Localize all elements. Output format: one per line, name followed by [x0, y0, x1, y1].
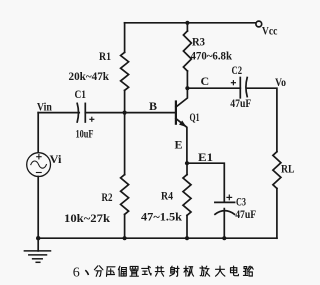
glyph ji — [184, 266, 194, 276]
svg-text:E: E — [175, 138, 183, 152]
svg-text:R3: R3 — [192, 35, 205, 49]
svg-text:10k~27k: 10k~27k — [64, 213, 111, 225]
svg-text:RL: RL — [281, 162, 295, 176]
svg-text:470~6.8k: 470~6.8k — [191, 51, 233, 63]
node C3 bottom junction — [222, 236, 226, 240]
wire Vi branch lower — [37, 177, 39, 239]
wire Vin stub — [38, 112, 79, 114]
resistor R2 — [124, 113, 126, 175]
svg-text:B: B — [149, 99, 157, 113]
node E1 junction — [185, 161, 189, 165]
resistor RL — [273, 152, 281, 189]
svg-text:R2: R2 — [102, 190, 113, 204]
wire C1 to base — [85, 112, 175, 114]
wire E1 to C3 — [187, 163, 224, 202]
wire top rail — [125, 22, 256, 24]
glyph da — [216, 266, 225, 276]
svg-text:47~1.5k: 47~1.5k — [141, 212, 183, 224]
resistor R4 — [186, 163, 188, 174]
capacitor C3 — [215, 201, 235, 203]
glyph dian — [231, 266, 239, 276]
svg-text:Q1: Q1 — [190, 110, 200, 124]
transistor Q1 — [175, 102, 177, 124]
glyph ya — [107, 267, 116, 277]
caption CJK text (hand-drawn glyphs) — [94, 266, 253, 277]
glyph gong — [155, 266, 164, 276]
resistor R1 — [124, 23, 126, 53]
node B junction — [123, 111, 127, 115]
svg-text:C: C — [201, 74, 210, 88]
glyph lu — [243, 266, 253, 276]
glyph she — [170, 266, 179, 276]
ground — [37, 238, 39, 251]
wire Vi branch upper — [37, 113, 39, 153]
glyph fang — [200, 266, 210, 276]
glyph pian — [118, 266, 126, 276]
svg-text:47uF: 47uF — [230, 98, 251, 110]
wire C2 to Vo corner — [246, 88, 277, 152]
source Vi — [27, 153, 51, 177]
node top junction — [185, 21, 189, 25]
svg-text:C2: C2 — [232, 63, 243, 77]
svg-text:Vo: Vo — [275, 75, 286, 89]
Vcc terminal circle — [256, 21, 262, 27]
glyph shi — [142, 266, 151, 275]
svg-text:R4: R4 — [161, 189, 173, 203]
node R2 bottom junction — [123, 236, 127, 240]
svg-text:E1: E1 — [198, 150, 213, 164]
svg-text:20k~47k: 20k~47k — [69, 71, 110, 83]
svg-text:10uF: 10uF — [76, 129, 94, 141]
caption ideographic comma — [85, 270, 88, 275]
glyph zhi — [130, 266, 138, 276]
node bottom-left junction — [36, 236, 40, 240]
svg-text:6: 6 — [73, 266, 80, 281]
resistor R3 — [186, 23, 188, 31]
svg-text:47uF: 47uF — [235, 209, 256, 221]
svg-text:Vin: Vin — [37, 102, 53, 114]
capacitor C1 — [77, 103, 78, 122]
wire C node to C2 — [187, 87, 240, 89]
svg-text:C1: C1 — [75, 87, 87, 101]
svg-text:Vcc: Vcc — [262, 26, 278, 38]
svg-text:R1: R1 — [99, 49, 111, 63]
wire bottom rail — [38, 237, 277, 239]
node R4 bottom junction — [185, 236, 189, 240]
svg-text:Vi: Vi — [50, 152, 63, 166]
glyph fen — [94, 266, 103, 277]
svg-text:C3: C3 — [236, 195, 246, 209]
capacitor C2 — [239, 78, 241, 98]
node C junction — [185, 86, 189, 90]
